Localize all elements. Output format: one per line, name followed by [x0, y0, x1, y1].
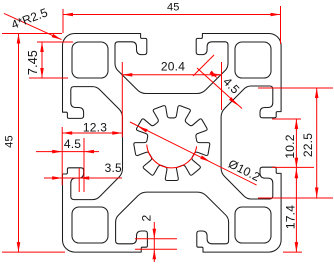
svg-text:20.4: 20.4 [161, 59, 185, 73]
svg-text:2: 2 [140, 214, 154, 221]
svg-text:17.4: 17.4 [284, 205, 298, 229]
svg-text:3.5: 3.5 [105, 161, 122, 175]
svg-text:10.2: 10.2 [283, 134, 297, 158]
svg-text:45: 45 [4, 135, 16, 148]
svg-text:12.3: 12.3 [83, 120, 107, 134]
svg-text:4.5: 4.5 [64, 137, 81, 151]
svg-text:7.45: 7.45 [26, 50, 40, 75]
svg-text:22.5: 22.5 [301, 133, 315, 157]
svg-text:45: 45 [167, 2, 180, 14]
